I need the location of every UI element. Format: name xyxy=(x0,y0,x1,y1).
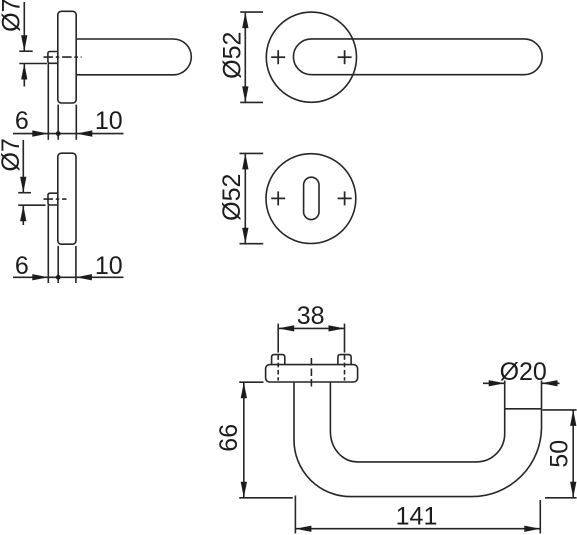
svg-text:Ø52: Ø52 xyxy=(218,174,246,221)
svg-text:Ø52: Ø52 xyxy=(219,32,247,79)
dim Ø52 ticks xyxy=(240,11,263,13)
dim 141 line xyxy=(295,528,540,530)
svg-text:66: 66 xyxy=(215,424,243,452)
svg-text:10: 10 xyxy=(95,252,123,280)
svg-text:10: 10 xyxy=(95,107,123,135)
grip inner contour xyxy=(330,382,504,462)
svg-text:141: 141 xyxy=(396,503,438,531)
dim 50 line xyxy=(572,410,574,498)
lever grip front view xyxy=(293,39,542,75)
grip outer contour xyxy=(294,382,542,497)
extension lines 6/10 xyxy=(47,205,49,283)
tab centerline right xyxy=(344,348,346,381)
dim Ø52 ticks xyxy=(240,152,264,154)
svg-text:Ø20: Ø20 xyxy=(500,358,547,386)
centerline xyxy=(44,198,67,200)
rose side profile xyxy=(58,11,76,103)
svg-text:6: 6 xyxy=(15,107,29,135)
dim 50 ticks xyxy=(543,409,577,411)
dim Ø52 line xyxy=(244,12,246,102)
centerline xyxy=(44,56,82,58)
dim Ø7 line lower xyxy=(23,64,25,87)
mounting flange xyxy=(266,365,358,382)
screw stub xyxy=(48,193,58,205)
dim Ø7 line upper xyxy=(23,2,25,51)
svg-text:50: 50 xyxy=(545,440,573,468)
dim Ø20 line xyxy=(483,382,505,384)
dim Ø7 line upper xyxy=(22,140,24,192)
screw cross left xyxy=(271,50,285,64)
screw tab left xyxy=(272,355,285,365)
dim Ø52 line xyxy=(244,153,246,243)
svg-text:Ø7: Ø7 xyxy=(0,138,25,171)
dim 66 ticks xyxy=(239,381,263,383)
dim 141 extension lines xyxy=(294,496,296,534)
screw cross right xyxy=(338,50,352,64)
dim Ø7 ticks xyxy=(18,192,31,194)
screw cross left xyxy=(271,191,285,205)
keyhole xyxy=(304,177,319,219)
dim 38 line xyxy=(278,327,344,329)
axis centerline xyxy=(310,358,312,387)
screw cross right xyxy=(338,191,352,205)
escutcheon circle xyxy=(266,154,356,244)
svg-text:Ø7: Ø7 xyxy=(0,0,25,32)
dim 66 line xyxy=(243,382,245,498)
screw tab right xyxy=(338,355,351,365)
rose circle xyxy=(266,12,356,102)
extension lines 6/10 xyxy=(47,64,49,140)
tab centerline left xyxy=(277,348,279,381)
dim 38 extension lines xyxy=(277,324,279,348)
lever neck side view xyxy=(77,39,191,75)
dim Ø7 line lower xyxy=(22,206,24,225)
dim 6/10 line xyxy=(13,133,124,135)
dim 6/10 line xyxy=(13,276,124,278)
dim Ø20 extension lines xyxy=(504,381,506,409)
grip end face xyxy=(505,408,542,410)
key rose side profile xyxy=(58,153,76,244)
screw stub xyxy=(48,52,58,64)
svg-text:6: 6 xyxy=(15,252,29,280)
dim Ø7 ticks xyxy=(19,50,32,52)
svg-text:38: 38 xyxy=(297,302,325,330)
